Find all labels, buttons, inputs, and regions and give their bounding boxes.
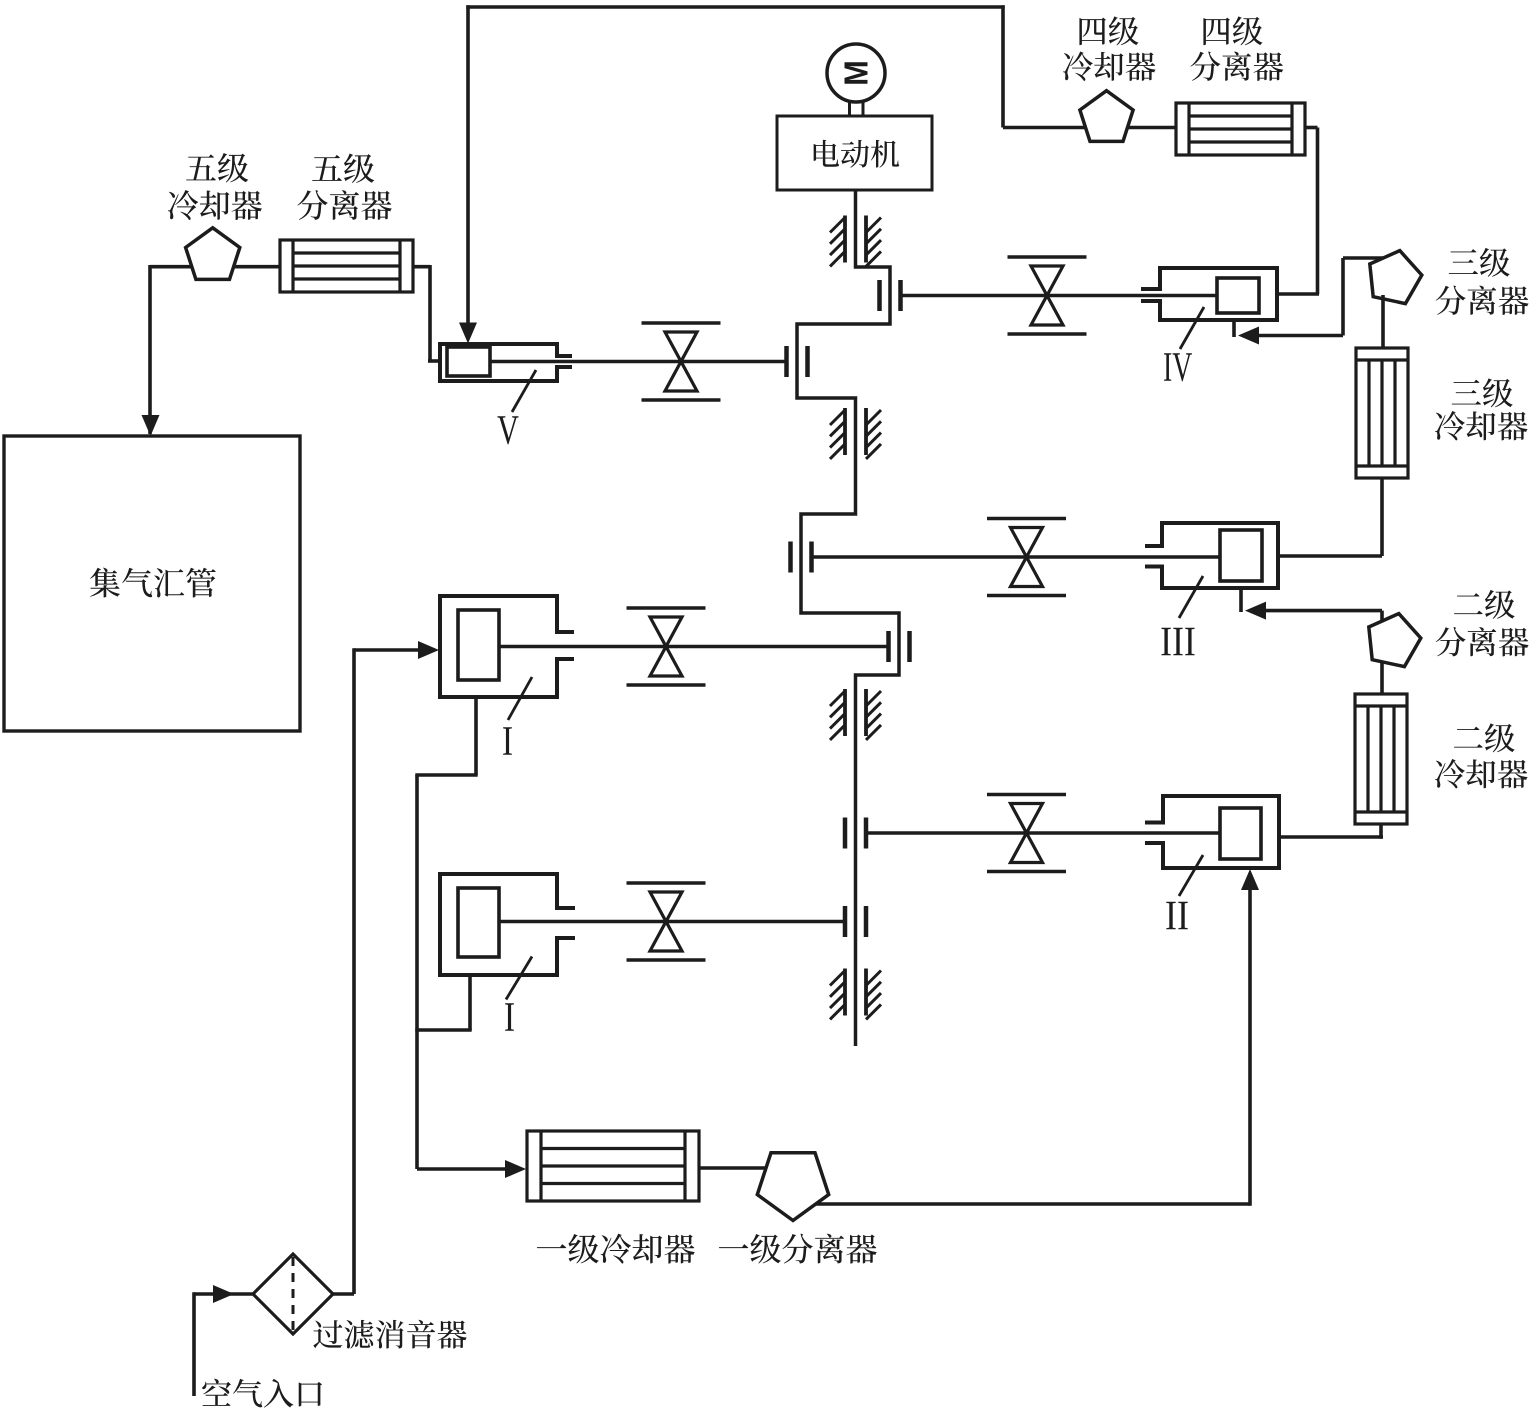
cylinder I lower — [440, 874, 557, 975]
bearing 2 — [843, 408, 847, 455]
rod IV — [901, 294, 1218, 298]
label 四级 cooler — [1079, 16, 1138, 45]
cylinder I upper — [440, 596, 557, 697]
wire separator2 to III — [1262, 609, 1382, 613]
label III — [1161, 628, 1194, 656]
label II — [1166, 902, 1187, 930]
pentagon separator2 二级分离器 — [1369, 614, 1421, 667]
gas manifold box 集气汇管 — [4, 436, 300, 731]
leader I lower — [506, 957, 532, 1000]
label 二级 sep2 — [1454, 590, 1515, 619]
crosshead V — [784, 346, 789, 377]
crosshead I lower — [843, 906, 848, 937]
rod V — [490, 360, 787, 364]
pentagon separator1 一级分离器 — [757, 1153, 828, 1221]
wire separator3 to IV — [1255, 334, 1343, 338]
pentagon cooler4 四级冷却器 — [1080, 91, 1133, 142]
arrow into cooler1 — [505, 1160, 526, 1178]
crosshead III — [788, 542, 793, 573]
motor letter M rotated — [845, 62, 868, 83]
arrow into IV — [1238, 327, 1259, 345]
label 二级 cooler2 — [1454, 723, 1515, 752]
valve I upper — [627, 606, 706, 610]
arrow into I upper — [418, 641, 439, 659]
cooler1 一级冷却器 — [527, 1131, 699, 1201]
label 三级 cooler3 — [1452, 378, 1513, 407]
valve II — [987, 793, 1066, 797]
valve V — [642, 321, 721, 325]
separator5 heat exchanger 五级分离器 — [280, 240, 413, 292]
motor box 电动机 — [777, 116, 932, 190]
motor neck — [848, 102, 851, 117]
separator4 heat exchanger 四级分离器 — [1176, 103, 1305, 155]
wire I upper discharge — [474, 697, 478, 775]
cylinder IV — [1160, 268, 1277, 320]
wire separator4 to cylinderIV — [1305, 126, 1318, 130]
valve I lower — [627, 881, 706, 885]
leader III — [1179, 576, 1203, 618]
wire main suction vertical — [352, 648, 356, 1294]
label 一级分离器 — [719, 1234, 877, 1264]
valve III — [987, 517, 1066, 521]
arrow into cylinderV top — [459, 323, 477, 344]
arrow into III — [1245, 602, 1266, 620]
wire main suction to I upper — [354, 648, 420, 652]
pentagon separator3 三级分离器 — [1370, 251, 1422, 304]
leader V — [512, 370, 536, 412]
cooler3 三级冷却器 — [1356, 348, 1408, 478]
label 四级 separator — [1203, 16, 1262, 45]
crosshead II — [843, 818, 848, 849]
wire collector down — [415, 775, 419, 1169]
valve IV — [1008, 255, 1087, 259]
wire I lower discharge — [468, 975, 472, 1030]
wire cooler1 to separator1 — [699, 1166, 793, 1170]
wire cooler3 to cylinderIII — [1380, 478, 1384, 556]
cylinder V outer+inner — [440, 344, 557, 381]
label 分离器 stage3 — [1436, 285, 1529, 314]
crankshaft — [797, 190, 899, 1046]
bearing 4 — [843, 969, 847, 1016]
air inlet wire 空气入口 — [192, 1292, 196, 1396]
wire pentagon3 to cooler3 — [1381, 295, 1385, 348]
label 分离器 stage2 — [1436, 627, 1529, 656]
label IV — [1164, 353, 1192, 381]
suction stub III — [1239, 586, 1243, 612]
leader II — [1179, 855, 1203, 896]
label 五级 separator — [312, 154, 374, 183]
crosshead I upper — [886, 631, 891, 662]
wire separator5 right to cylinderV — [413, 265, 430, 269]
rod I upper — [499, 645, 889, 649]
leader IV — [1180, 307, 1204, 349]
rod II — [866, 831, 1220, 835]
wire cooler2 to cylinderII — [1379, 824, 1383, 839]
wire separator1 to II — [1248, 886, 1252, 1206]
wire separator5 to manifold — [150, 265, 280, 269]
rod I lower — [499, 920, 845, 924]
label 集气汇管 — [90, 568, 216, 598]
label 冷却器 stage4 — [1063, 51, 1156, 80]
label 空气入口 — [202, 1379, 322, 1408]
label 分离器 stage5 — [297, 190, 391, 220]
label V — [497, 416, 518, 444]
leader I upper — [508, 677, 532, 720]
crosshead IV — [877, 280, 882, 311]
pentagon cooler5 五级冷却器 — [186, 228, 240, 280]
label I lower — [505, 1003, 514, 1031]
arrow into manifold — [142, 415, 160, 436]
label 电动机 — [814, 140, 900, 168]
arrow air inlet — [213, 1285, 234, 1303]
label 冷却器 stage5 — [168, 190, 262, 220]
wire top loop — [466, 5, 1004, 8]
label 过滤消音器 — [313, 1320, 466, 1349]
label I upper — [503, 727, 512, 755]
bearing 3 — [843, 689, 847, 736]
cylinder III — [1162, 523, 1278, 588]
label 三级 sep3 — [1449, 248, 1510, 277]
rod III — [812, 555, 1221, 559]
label 冷却器 stage2 — [1435, 759, 1528, 788]
filter silencer diamond 过滤消音器 — [253, 1254, 333, 1334]
label 五级 — [186, 153, 248, 182]
arrow into II — [1241, 869, 1259, 890]
cooler2 二级冷却器 — [1355, 694, 1407, 824]
label 一级冷却器 — [537, 1234, 695, 1264]
bearing 1 — [843, 216, 847, 263]
motor circle M — [827, 44, 885, 102]
label 分离器 stage4 — [1190, 51, 1283, 80]
cylinder II — [1163, 796, 1279, 868]
suction stub IV — [1232, 318, 1236, 337]
label 冷却器 stage3 — [1435, 411, 1528, 440]
wire to cooler4 — [1003, 126, 1176, 130]
